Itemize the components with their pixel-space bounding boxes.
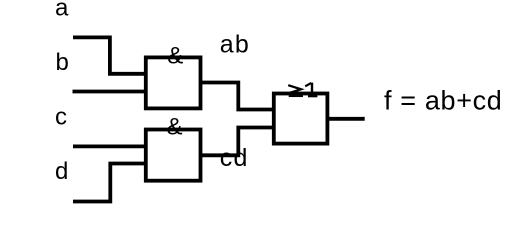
svg-text:c: c — [55, 104, 67, 131]
svg-text:&: & — [167, 42, 183, 69]
svg-text:b: b — [56, 49, 69, 76]
OR gate U3 body — [274, 94, 328, 144]
AND gate U1 body — [146, 57, 201, 108]
svg-text:a: a — [55, 0, 69, 22]
wire U2 output to U3 bottom input — [201, 128, 274, 156]
OR gate U3 symbol label >= underbar — [289, 95, 303, 97]
OR gate U3 symbol label digit 1 stem — [311, 83, 313, 97]
wire a input with jog — [73, 37, 146, 73]
OR gate U3 symbol label >= sign — [288, 85, 301, 93]
svg-text:f = ab+cd: f = ab+cd — [384, 85, 502, 115]
wire U1 output to U3 top input — [201, 83, 274, 110]
OR gate U3 symbol label digit 1 foot — [308, 95, 317, 97]
wire c input — [73, 144, 146, 148]
svg-text:&: & — [167, 113, 183, 140]
wire f output — [327, 117, 364, 121]
svg-text:cd: cd — [220, 144, 249, 172]
AND gate U2 body — [146, 130, 201, 181]
OR gate U3 symbol label digit 1 flag — [305, 83, 311, 86]
svg-text:d: d — [55, 158, 68, 185]
wire b input — [73, 90, 147, 94]
svg-text:ab: ab — [220, 30, 250, 58]
wire d input with jog — [73, 164, 146, 202]
